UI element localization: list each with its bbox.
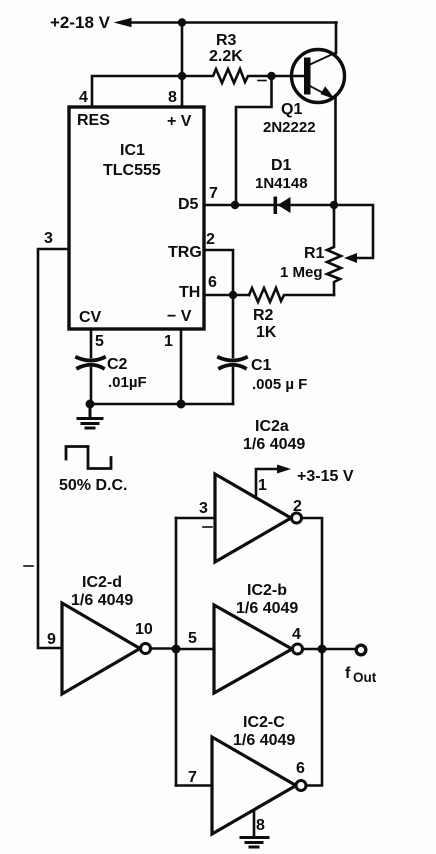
wire pin1 stub <box>256 469 277 498</box>
wire d-output <box>151 647 177 650</box>
svg-text:1K: 1K <box>256 324 277 341</box>
wire pin7 D5 <box>204 204 334 207</box>
node D1 right junction <box>330 201 338 209</box>
wire pin3 long left <box>38 249 69 648</box>
ground under IC2-C <box>241 838 268 848</box>
bubble IC2a <box>292 513 302 523</box>
svg-text:5: 5 <box>188 630 197 647</box>
wire emitter down <box>334 97 337 205</box>
node top rail junction <box>178 18 186 26</box>
node R3 row junction <box>178 72 186 80</box>
svg-text:.005 µ F: .005 µ F <box>252 376 307 393</box>
svg-text:1/6 4049: 1/6 4049 <box>236 600 298 617</box>
svg-text:IC2a: IC2a <box>255 418 289 435</box>
IC1 box <box>69 107 204 329</box>
wire C1 top <box>232 295 235 357</box>
diode D1 <box>274 197 291 215</box>
svg-text:6: 6 <box>208 274 217 291</box>
bubble IC2-d <box>141 644 151 654</box>
inverter IC2-C <box>212 737 296 834</box>
svg-text:IC1: IC1 <box>120 142 145 159</box>
pin1 arrowhead <box>277 465 291 474</box>
svg-text:IC2-d: IC2-d <box>82 574 122 591</box>
svg-text:IC2-C: IC2-C <box>243 714 285 731</box>
svg-text:Q1: Q1 <box>281 101 302 118</box>
svg-text:1/6 4049: 1/6 4049 <box>243 436 305 453</box>
wire pin5 input <box>176 648 214 651</box>
svg-text:2N2222: 2N2222 <box>263 119 316 136</box>
wire pin2 TRG <box>204 250 233 295</box>
wire pin7 input <box>176 784 212 787</box>
wire top rail <box>128 21 337 24</box>
svg-text:1/6 4049: 1/6 4049 <box>71 592 133 609</box>
svg-text:2.2K: 2.2K <box>209 48 243 65</box>
svg-text:+2-18 V: +2-18 V <box>50 13 111 32</box>
node output junction <box>318 645 327 654</box>
svg-text:TLC555: TLC555 <box>103 162 161 179</box>
wire pin8 stub <box>253 810 256 836</box>
svg-text:1N4148: 1N4148 <box>255 175 308 192</box>
svg-text:C2: C2 <box>107 356 128 373</box>
svg-text:D5: D5 <box>178 196 199 213</box>
svg-text:3: 3 <box>44 230 53 247</box>
svg-text:7: 7 <box>209 185 218 202</box>
wire pin4 top <box>92 76 182 107</box>
wire collector up <box>335 23 338 54</box>
svg-text:TH: TH <box>179 284 200 301</box>
svg-text:TRG: TRG <box>168 244 202 261</box>
svg-text:1: 1 <box>164 333 173 350</box>
stray dash R3 <box>258 80 266 82</box>
svg-text:8: 8 <box>168 89 177 106</box>
wire C-output <box>306 649 322 786</box>
svg-text:1/6 4049: 1/6 4049 <box>233 732 295 749</box>
node pin6 junction <box>229 291 237 299</box>
resistor R2 <box>249 288 334 302</box>
svg-text:RES: RES <box>77 112 110 129</box>
svg-text:6: 6 <box>296 760 305 777</box>
svg-text:f: f <box>345 665 351 682</box>
svg-text:+ V: + V <box>167 113 192 130</box>
inverter IC2-b <box>214 605 292 693</box>
svg-text:2: 2 <box>206 231 215 248</box>
svg-text:50% D.C.: 50% D.C. <box>59 477 127 494</box>
node R3 base junction <box>267 72 275 80</box>
svg-text:8: 8 <box>256 817 265 834</box>
terminal fOut <box>356 645 366 655</box>
wire base to D5 <box>236 76 272 205</box>
node pin7 junction <box>231 201 239 209</box>
capacitor C2 <box>77 358 104 369</box>
inverter IC2a <box>215 474 291 562</box>
svg-text:2: 2 <box>293 498 302 515</box>
resistor R1 <box>327 205 341 295</box>
waveform symbol <box>66 447 111 469</box>
svg-text:CV: CV <box>79 309 102 326</box>
power arrowhead <box>114 18 132 27</box>
svg-text:R3: R3 <box>216 32 237 49</box>
stray dash <box>203 526 212 528</box>
svg-text:.01µF: .01µF <box>108 374 147 391</box>
wire pin3 input <box>176 517 215 520</box>
wire mid vertical <box>175 518 178 786</box>
capacitor C1 <box>219 358 246 369</box>
svg-text:C1: C1 <box>251 357 272 374</box>
wire pin1 <box>180 329 183 404</box>
wire pin5 <box>90 329 93 357</box>
svg-text:− V: − V <box>167 308 192 325</box>
resistor R3 <box>182 69 272 83</box>
svg-text:4: 4 <box>79 89 88 106</box>
inverter IC2-d <box>62 603 140 694</box>
svg-text:3: 3 <box>199 500 208 517</box>
stray dash d <box>24 565 33 567</box>
wire C2 bottom <box>90 368 93 404</box>
svg-text:Out: Out <box>353 670 377 685</box>
svg-text:10: 10 <box>135 621 153 638</box>
wiper arrowhead <box>344 253 357 263</box>
node C2 junction <box>86 400 95 409</box>
svg-text:IC2-b: IC2-b <box>247 582 287 599</box>
svg-text:7: 7 <box>188 769 197 786</box>
wire bottom rail <box>90 403 233 406</box>
wire pin2 output <box>302 518 323 649</box>
wire C1 bottom <box>232 368 235 404</box>
svg-text:R2: R2 <box>253 307 274 324</box>
ground under C2 <box>78 404 102 428</box>
svg-text:5: 5 <box>95 333 104 350</box>
svg-text:9: 9 <box>47 631 56 648</box>
svg-text:D1: D1 <box>271 157 292 174</box>
svg-text:+3-15 V: +3-15 V <box>297 468 354 485</box>
transistor Q1 <box>292 50 345 103</box>
wire rail to R3 row <box>181 23 184 108</box>
svg-text:1 Meg: 1 Meg <box>280 264 323 281</box>
node pin1 junction <box>177 400 186 409</box>
svg-text:4: 4 <box>292 626 301 643</box>
wire base <box>272 75 306 78</box>
wire pin6 TH <box>204 294 249 297</box>
wire b-output <box>303 648 356 651</box>
node mid junction <box>172 645 181 654</box>
wire R1 wiper <box>334 205 373 258</box>
bubble IC2-C <box>296 781 306 791</box>
svg-text:R1: R1 <box>304 245 325 262</box>
bubble IC2-b <box>293 644 303 654</box>
svg-text:1: 1 <box>258 477 267 494</box>
